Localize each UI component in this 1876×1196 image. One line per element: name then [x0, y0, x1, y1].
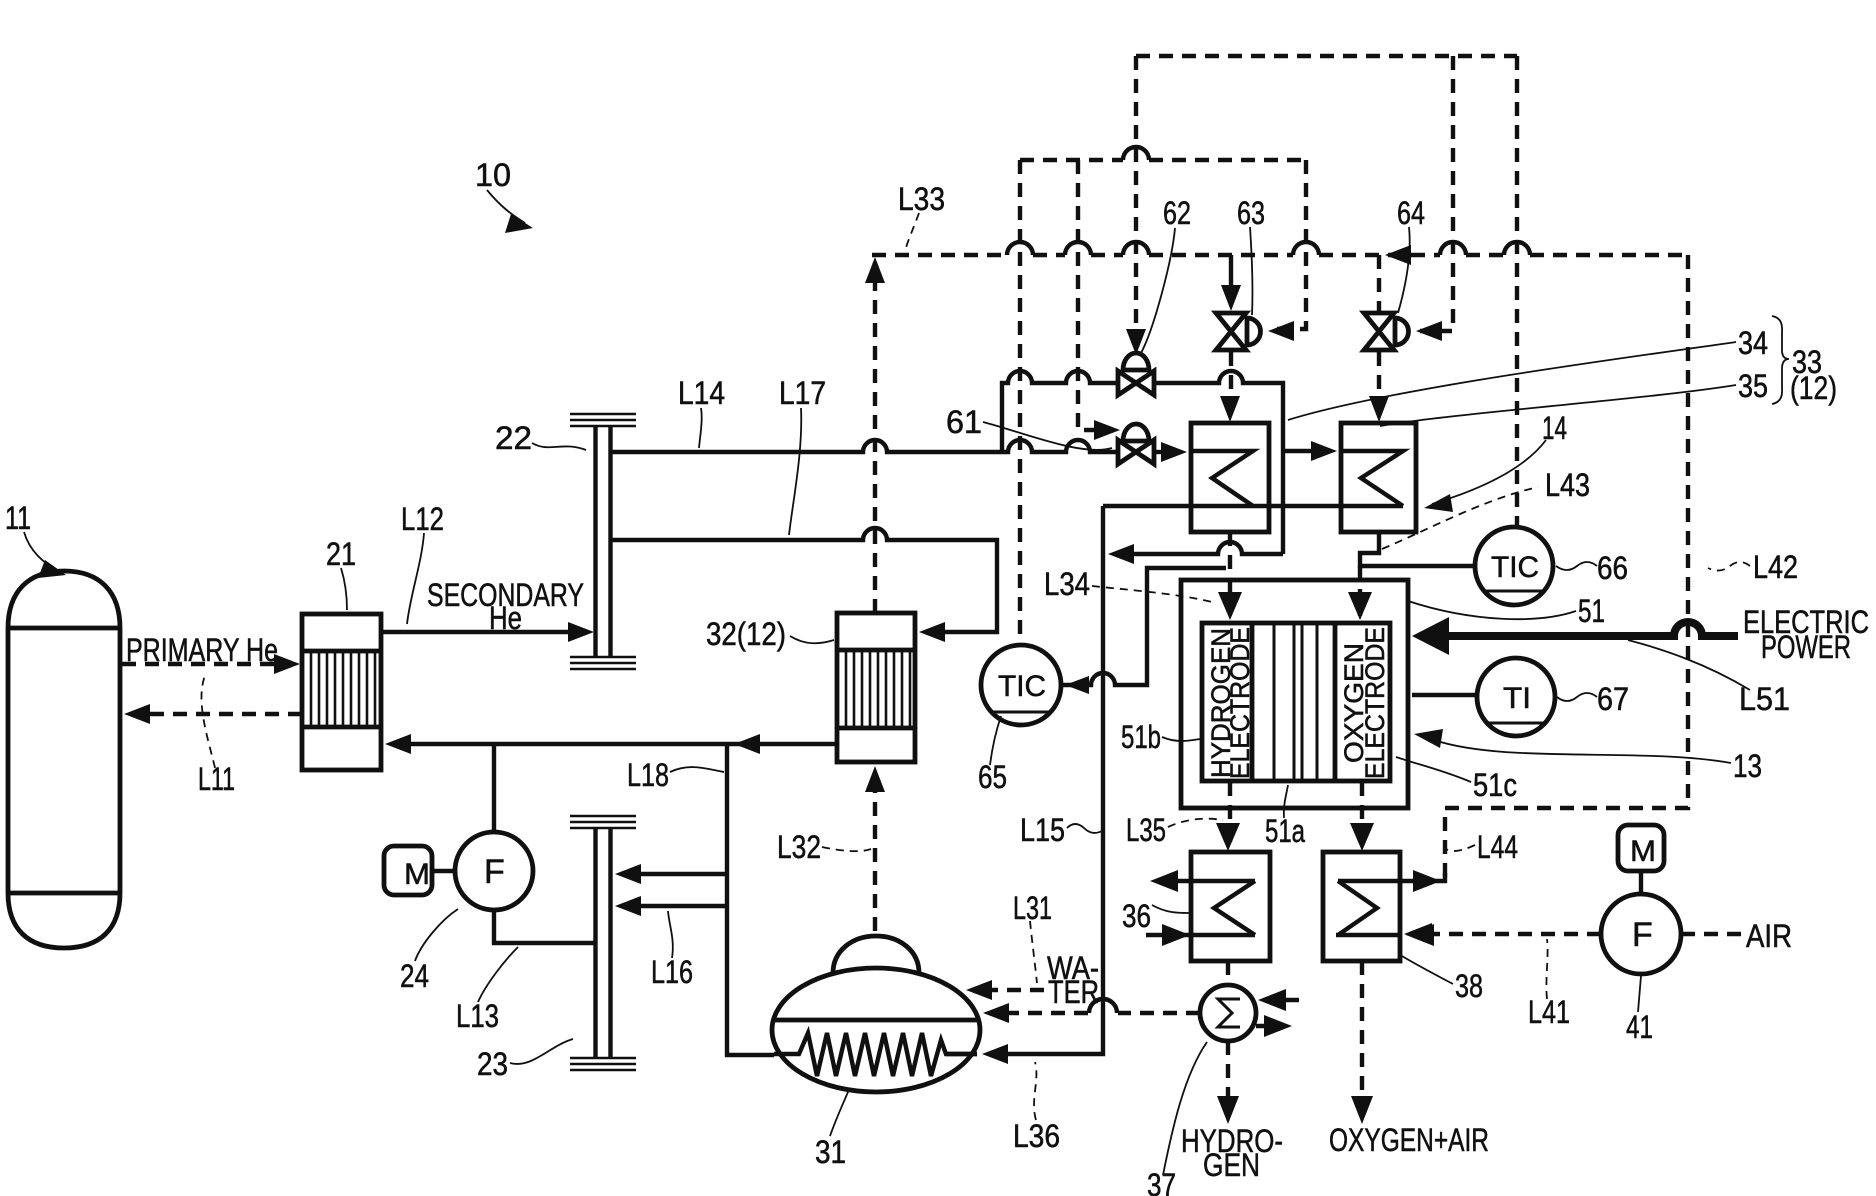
svg-text:23: 23	[477, 1046, 508, 1082]
svg-text:34: 34	[1738, 325, 1768, 361]
svg-text:L32: L32	[777, 829, 821, 865]
svg-text:ELECTRODE: ELECTRODE	[1225, 627, 1255, 779]
svg-text:L14: L14	[678, 375, 725, 411]
svg-text:24: 24	[400, 958, 429, 994]
svg-text:51c: 51c	[1473, 767, 1517, 803]
svg-text:L41: L41	[1528, 994, 1570, 1030]
svg-text:13: 13	[1733, 748, 1762, 784]
svg-text:(12): (12)	[1790, 370, 1837, 406]
svg-text:63: 63	[1237, 195, 1265, 231]
svg-text:L43: L43	[1545, 467, 1590, 503]
svg-text:37: 37	[1147, 1167, 1176, 1196]
svg-text:OXYGEN+AIR: OXYGEN+AIR	[1329, 1122, 1489, 1158]
svg-text:TIC: TIC	[998, 670, 1046, 703]
svg-text:AIR: AIR	[1746, 918, 1792, 954]
svg-text:L17: L17	[779, 375, 826, 411]
svg-text:L16: L16	[651, 954, 693, 990]
svg-text:PRIMARY He: PRIMARY He	[126, 632, 278, 668]
svg-text:POWER: POWER	[1761, 629, 1851, 665]
svg-text:38: 38	[1455, 968, 1483, 1004]
svg-text:62: 62	[1163, 195, 1191, 231]
svg-text:F: F	[1632, 916, 1653, 954]
svg-text:L18: L18	[627, 757, 669, 793]
svg-text:66: 66	[1597, 550, 1628, 586]
svg-text:31: 31	[815, 1134, 846, 1170]
svg-text:L31: L31	[1013, 890, 1052, 926]
svg-text:L51: L51	[1739, 681, 1790, 717]
svg-text:M: M	[404, 858, 430, 891]
svg-text:22: 22	[495, 420, 532, 456]
svg-text:L35: L35	[1126, 812, 1166, 848]
svg-text:65: 65	[978, 759, 1007, 795]
svg-text:He: He	[489, 600, 522, 636]
svg-text:35: 35	[1738, 368, 1768, 404]
svg-text:L13: L13	[456, 998, 499, 1034]
svg-text:51b: 51b	[1121, 719, 1161, 755]
svg-text:TI: TI	[1503, 682, 1531, 715]
svg-text:L15: L15	[1020, 812, 1065, 848]
svg-text:67: 67	[1597, 681, 1629, 717]
svg-text:51a: 51a	[1265, 813, 1305, 849]
svg-text:51: 51	[1578, 593, 1605, 629]
svg-text:41: 41	[1626, 1009, 1653, 1045]
svg-text:L33: L33	[898, 181, 945, 217]
svg-text:F: F	[484, 853, 505, 891]
svg-text:L36: L36	[1013, 1118, 1060, 1154]
svg-text:L34: L34	[1044, 566, 1090, 602]
svg-text:14: 14	[1542, 410, 1567, 446]
svg-text:TIC: TIC	[1491, 551, 1539, 584]
svg-text:GEN: GEN	[1203, 1147, 1260, 1183]
svg-text:36: 36	[1122, 898, 1151, 934]
svg-text:M: M	[1630, 835, 1656, 868]
svg-text:61: 61	[946, 404, 982, 440]
svg-text:11: 11	[5, 500, 31, 536]
svg-text:21: 21	[326, 536, 356, 572]
svg-text:10: 10	[475, 157, 511, 193]
svg-text:ELECTRODE: ELECTRODE	[1360, 627, 1390, 779]
svg-text:32(12): 32(12)	[706, 616, 786, 652]
svg-text:L12: L12	[401, 501, 444, 537]
svg-text:L42: L42	[1753, 549, 1798, 585]
svg-text:L11: L11	[198, 761, 235, 797]
svg-text:TER: TER	[1048, 974, 1099, 1010]
svg-text:64: 64	[1397, 195, 1425, 231]
svg-text:L44: L44	[1477, 829, 1518, 865]
